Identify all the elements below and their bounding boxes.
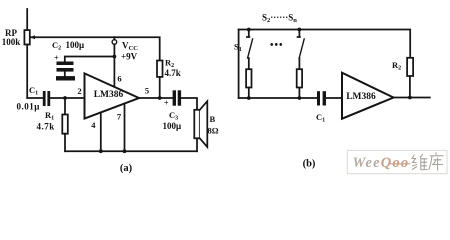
- svg-text:S1: S1: [234, 42, 242, 54]
- node Sn bottom dot: [298, 96, 302, 100]
- Vcc terminal stub: [113, 37, 115, 40]
- wire RP bottom terminal to input line: [26, 45, 28, 99]
- Vcc terminal circle: [112, 40, 117, 45]
- svg-text:5: 5: [145, 86, 149, 96]
- resistor R1 body: [62, 115, 68, 134]
- svg-text:7: 7: [117, 112, 122, 122]
- node Sn top dot: [298, 28, 302, 32]
- wire C1 to pin 2: [50, 97, 84, 99]
- wire S1 blade to resistor: [248, 58, 250, 69]
- resistor R2 body (b): [407, 58, 413, 76]
- potentiometer RP body: [24, 30, 29, 44]
- capacitor C2 top plate: [57, 62, 74, 66]
- wire supply node to C2: [65, 57, 115, 62]
- wiper arrowhead: [30, 35, 35, 39]
- wire Sn resistor to bottom rail: [298, 88, 300, 99]
- svg-text:(a): (a): [120, 163, 133, 174]
- wire output pin 5: [139, 97, 173, 99]
- wire speaker to ground rail: [196, 138, 198, 151]
- wire C1 to amp input (b): [326, 97, 342, 99]
- wire pin 4 to ground: [100, 112, 102, 151]
- resistor body under Sn: [297, 69, 302, 87]
- resistor body under S1: [246, 69, 251, 87]
- speaker B cone: [200, 101, 208, 147]
- left edge wire (b): [238, 30, 240, 99]
- switch Sn blade: [299, 39, 304, 58]
- node output junction dot: [158, 96, 162, 100]
- wire Sn fixed contact stub: [298, 30, 300, 38]
- svg-text:4.7k: 4.7k: [165, 68, 181, 78]
- op-amp U2 LM386 triangle (b): [342, 73, 394, 119]
- svg-text:WeeQoo: WeeQoo: [353, 155, 410, 171]
- svg-text:C1: C1: [29, 85, 38, 97]
- svg-text:100μ: 100μ: [66, 40, 85, 50]
- svg-text:(b): (b): [303, 159, 316, 170]
- capacitor C1 right plate (a): [47, 91, 50, 106]
- node input junction dot: [63, 96, 67, 100]
- ground bar of C2: [56, 76, 75, 80]
- watermark char ku: [429, 153, 444, 171]
- node pin4 ground dot: [99, 149, 103, 153]
- capacitor C1 left plate (a): [43, 91, 46, 106]
- svg-text:LM386: LM386: [94, 90, 124, 100]
- wire Vcc circle to supply node: [113, 44, 115, 56]
- capacitor C2 second plate: [57, 68, 74, 72]
- wire amp output (b): [394, 97, 430, 99]
- capacitor C1 left plate (b): [317, 91, 320, 105]
- ground rail (a): [65, 150, 197, 152]
- svg-text:2: 2: [77, 86, 81, 96]
- wire input node to R1: [64, 98, 66, 115]
- capacitor C3 right plate: [178, 90, 181, 105]
- wire R2 bottom to output node: [159, 77, 161, 98]
- watermark char wei: [412, 154, 428, 170]
- wire RP top terminal: [26, 9, 28, 30]
- svg-text:0.01μ: 0.01μ: [17, 102, 40, 112]
- svg-text:8Ω: 8Ω: [208, 126, 219, 136]
- wire R1 bottom to ground rail: [64, 134, 66, 152]
- op-amp U1 LM386 triangle (a): [85, 73, 140, 118]
- speaker B driver box: [194, 110, 200, 139]
- svg-text:S2······Sn: S2······Sn: [262, 13, 297, 25]
- svg-text:VCC: VCC: [122, 41, 138, 53]
- watermark Q tail stroke: [390, 163, 411, 165]
- svg-text:C3: C3: [169, 110, 178, 122]
- wire supply node to pin 6: [113, 57, 115, 88]
- svg-text:C2: C2: [52, 40, 61, 52]
- node pin7 ground dot: [123, 149, 127, 153]
- wire Sn blade to resistor: [298, 58, 300, 69]
- wire RP wiper / top rail to R2: [31, 37, 160, 60]
- bottom rail (b) to C1: [239, 97, 317, 99]
- svg-text:LM386: LM386: [346, 92, 376, 102]
- watermark box: [347, 150, 447, 173]
- capacitor C3 left plate: [173, 90, 176, 105]
- svg-text:6: 6: [117, 74, 121, 84]
- wire C3 to speaker: [181, 98, 197, 110]
- svg-text:B: B: [210, 114, 216, 124]
- node S1 bottom dot: [247, 96, 251, 100]
- switch S1 blade: [248, 39, 253, 58]
- top rail (b): [239, 30, 411, 58]
- svg-text:100k: 100k: [2, 37, 21, 47]
- svg-text:100μ: 100μ: [163, 121, 182, 131]
- wire C2 plate to ground bar: [64, 72, 66, 77]
- svg-text:R1: R1: [45, 110, 54, 122]
- svg-text:+: +: [164, 99, 169, 108]
- wire S1 resistor to bottom rail: [248, 88, 250, 99]
- svg-text:+9V: +9V: [121, 52, 138, 62]
- wire output node to R2 (b): [409, 76, 411, 98]
- svg-text:4.7k: 4.7k: [37, 122, 55, 132]
- capacitor C1 right plate (b): [323, 91, 326, 105]
- wire input line left: [27, 97, 43, 99]
- resistor R2 body (a): [157, 61, 163, 77]
- svg-text:+: +: [54, 54, 59, 63]
- wire pin 7 to ground: [124, 104, 126, 152]
- node output dot (b): [408, 96, 412, 100]
- node S1 top dot: [247, 28, 251, 32]
- node supply junction dot: [113, 55, 117, 59]
- svg-text:•••: •••: [270, 40, 284, 51]
- svg-text:C1: C1: [316, 112, 325, 124]
- svg-text:4: 4: [91, 120, 96, 130]
- wire S1 fixed contact stub: [247, 30, 249, 38]
- svg-text:R2: R2: [392, 60, 401, 72]
